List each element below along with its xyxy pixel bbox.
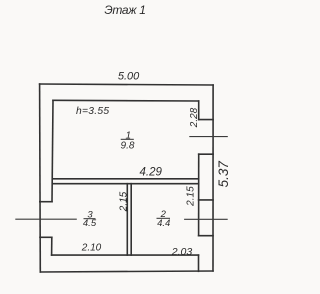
svg-text:2.03: 2.03	[171, 246, 193, 258]
svg-text:4.5: 4.5	[83, 218, 97, 229]
room 1 fraction line	[121, 138, 134, 140]
room 3 fraction line	[84, 218, 96, 220]
svg-text:5.37: 5.37	[216, 161, 231, 188]
svg-text:4.29: 4.29	[140, 166, 163, 178]
inner wall right upper segment	[198, 101, 200, 120]
window W3 axis line	[184, 218, 228, 220]
window W1 axis line	[15, 218, 77, 220]
svg-text:5.00: 5.00	[118, 71, 140, 83]
window W2 axis line	[189, 136, 228, 138]
outer wall top	[40, 84, 214, 85]
svg-text:2.15: 2.15	[119, 191, 130, 212]
outer wall left	[39, 84, 42, 272]
outer wall bottom	[40, 271, 213, 272]
partition wall horizontal bottom line	[53, 183, 199, 185]
window W1 left bottom jamb	[40, 236, 52, 238]
inner wall bottom	[52, 254, 199, 256]
svg-text:2.15: 2.15	[186, 186, 197, 207]
svg-text:2.28: 2.28	[189, 107, 200, 128]
window W2 right bottom jamb	[199, 153, 213, 155]
room 2 fraction line	[157, 217, 171, 219]
partition wall vertical right line	[130, 184, 132, 255]
outer wall right	[212, 85, 214, 271]
partition wall vertical left line	[126, 184, 128, 255]
svg-text:h=3.55: h=3.55	[76, 106, 109, 117]
inner wall top	[53, 99, 199, 102]
window W3 right bottom jamb	[199, 235, 213, 237]
window W3 right top jamb	[199, 199, 213, 201]
bottom wall right end cap	[198, 255, 200, 271]
inner wall left lower segment	[51, 237, 53, 255]
inner wall left upper segment	[52, 100, 53, 201]
svg-text:9.8: 9.8	[121, 141, 135, 152]
window W2 right top jamb	[199, 119, 213, 121]
svg-text:4.4: 4.4	[157, 218, 170, 229]
svg-text:Этаж 1: Этаж 1	[104, 3, 145, 17]
inner wall right middle segment	[198, 154, 200, 236]
svg-text:2.10: 2.10	[81, 243, 102, 254]
partition wall horizontal top line	[53, 178, 199, 180]
window W1 left top jamb	[40, 201, 52, 203]
